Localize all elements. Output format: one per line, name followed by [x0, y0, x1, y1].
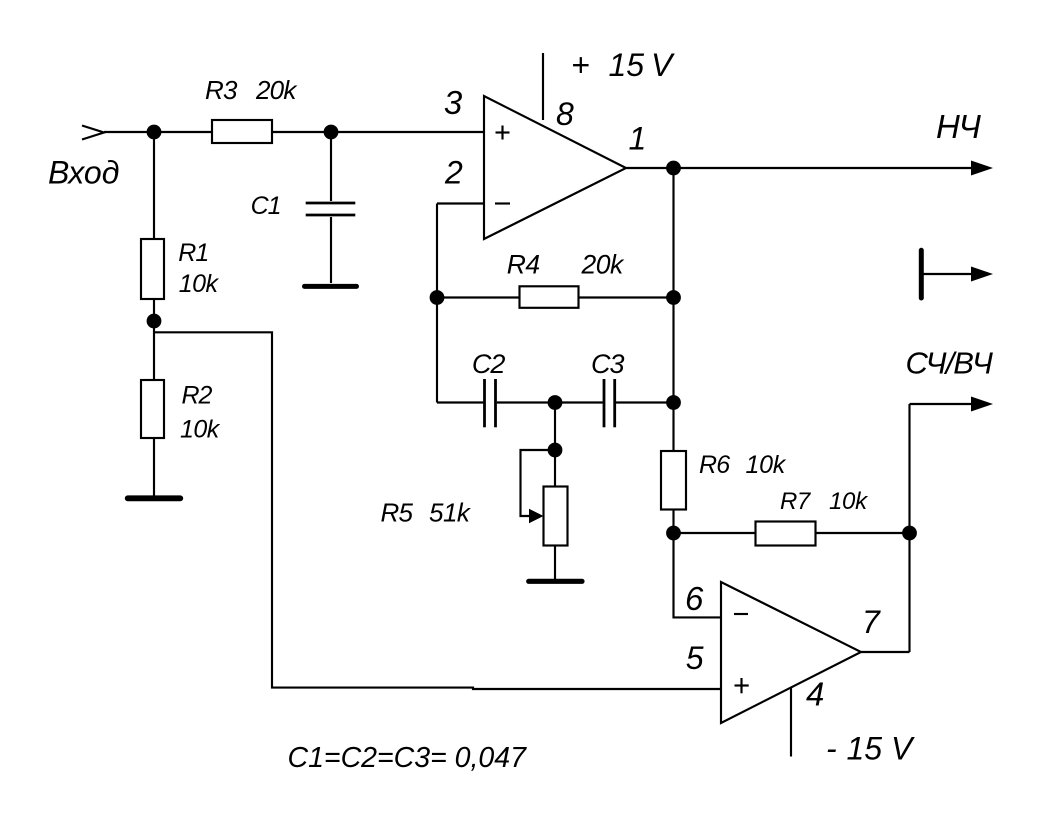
resistor R4 — [520, 286, 579, 308]
node input junction — [147, 125, 162, 140]
input arrow — [82, 126, 104, 140]
node R4 left junction — [430, 290, 445, 305]
svg-text:Вход: Вход — [48, 155, 119, 191]
op-amp U2 minus symbol — [734, 613, 748, 615]
node C2-C3 junction — [548, 395, 563, 410]
wire C1 node to op-amp pin 3 — [331, 131, 484, 133]
wire to R4 left — [437, 296, 520, 298]
svg-text:R1: R1 — [178, 239, 208, 267]
wire +15V supply pin 8 — [542, 53, 544, 120]
svg-text:-: - — [826, 731, 837, 767]
svg-text:10k: 10k — [829, 488, 869, 515]
wire mid node to C3 — [555, 401, 603, 403]
capacitor C3 — [604, 379, 615, 427]
wire R3 to C1 node — [272, 131, 331, 133]
svg-text:+: + — [571, 47, 590, 83]
wire op-amp pin 2 — [437, 202, 484, 204]
wire C1 to ground — [330, 217, 332, 283]
svg-text:R6: R6 — [699, 451, 730, 479]
resistor R2 — [141, 380, 164, 438]
svg-text:3: 3 — [444, 84, 463, 121]
arrowhead NCh output — [971, 161, 993, 176]
svg-text:R2: R2 — [182, 382, 213, 410]
svg-text:C2: C2 — [472, 349, 505, 379]
ground under R2 — [128, 495, 181, 501]
svg-text:C3: C3 — [591, 349, 624, 379]
wire middle output — [921, 273, 972, 275]
svg-text:8: 8 — [556, 96, 574, 132]
svg-text:15: 15 — [847, 731, 883, 767]
svg-text:5: 5 — [686, 640, 704, 676]
ground under C1 — [305, 284, 357, 289]
svg-text:R7: R7 — [780, 488, 812, 515]
wire R1 to node — [153, 299, 155, 380]
svg-text:20k: 20k — [581, 250, 625, 280]
op-amp U1 plus symbol — [496, 126, 510, 140]
wire pot to ground — [554, 546, 556, 581]
op-amp U2 — [721, 582, 861, 723]
node C1 top junction — [324, 125, 339, 140]
arrowhead middle output — [971, 267, 993, 282]
op-amp U1 minus symbol — [495, 202, 510, 204]
wire input to R3 — [104, 131, 212, 133]
wire C2 to mid node — [497, 401, 555, 403]
wire C3 to right rail — [616, 401, 674, 403]
wire right rail output down — [672, 168, 674, 451]
svg-text:R3: R3 — [205, 75, 238, 105]
capacitor C1 — [306, 203, 356, 215]
wire branch to op-amp 2 plus input — [154, 332, 721, 689]
svg-text:C1: C1 — [251, 192, 281, 220]
node op-amp1 output junction — [666, 161, 681, 176]
wire rail to C2 — [437, 401, 483, 403]
svg-text:1: 1 — [629, 120, 647, 156]
svg-text:10k: 10k — [746, 451, 787, 479]
resistor R3 — [212, 120, 272, 143]
node R7 right junction — [902, 526, 917, 541]
wire R4 right — [579, 296, 674, 298]
svg-text:СЧ/ВЧ: СЧ/ВЧ — [906, 346, 994, 381]
arrowhead pot wiper — [529, 509, 544, 523]
resistor R6 — [661, 451, 686, 510]
node pot top junction — [548, 443, 563, 458]
svg-text:R4: R4 — [507, 250, 540, 280]
svg-text:20k: 20k — [255, 75, 298, 105]
svg-text:51k: 51k — [429, 498, 472, 528]
wire op-amp2 pin 6 — [674, 533, 722, 617]
svg-text:4: 4 — [806, 676, 824, 713]
svg-text:2: 2 — [444, 155, 463, 191]
wire C1 node down to C1 — [330, 132, 332, 201]
svg-text:10k: 10k — [180, 416, 221, 444]
svg-text:V: V — [891, 731, 915, 767]
wire left feedback rail — [436, 204, 438, 403]
svg-text:НЧ: НЧ — [936, 108, 982, 145]
svg-text:V: V — [651, 47, 675, 83]
ground under pot — [529, 579, 582, 584]
op-amp U1 — [484, 96, 626, 239]
wire SCh/VCh output — [910, 403, 973, 405]
svg-text:6: 6 — [685, 580, 704, 617]
wire R2 to ground — [153, 438, 155, 496]
resistor R7 — [756, 522, 816, 546]
svg-text:C1=C2=C3= 0,047: C1=C2=C3= 0,047 — [288, 742, 528, 774]
wire -15V supply pin 4 — [790, 688, 792, 757]
node R1-R2 junction — [147, 314, 162, 329]
node R4 right junction — [666, 290, 681, 305]
wire R6 to node — [672, 510, 674, 534]
svg-text:15: 15 — [609, 47, 645, 83]
svg-text:R5: R5 — [381, 498, 414, 528]
wire right output rail up — [908, 404, 910, 652]
capacitor C2 — [485, 379, 496, 427]
terminal bar middle output — [919, 250, 924, 298]
op-amp U2 plus symbol — [735, 678, 749, 693]
wire op-amp U1 output — [626, 167, 972, 169]
node C3 right junction — [666, 395, 681, 410]
wire mid node down to pot — [554, 403, 556, 487]
node R6 bottom junction — [666, 526, 681, 541]
potentiometer R5 body — [544, 487, 568, 546]
wire pot wiper branch — [521, 450, 556, 516]
wire R7 to right rail — [816, 532, 910, 534]
wire node to R7 — [674, 532, 756, 534]
svg-text:7: 7 — [862, 604, 881, 640]
svg-text:10k: 10k — [179, 270, 220, 298]
wire op-amp U2 output pin 7 — [861, 651, 910, 653]
wire input node down to R1 — [153, 132, 155, 239]
arrowhead SCh/VCh output — [971, 397, 993, 412]
resistor R1 — [141, 239, 164, 299]
